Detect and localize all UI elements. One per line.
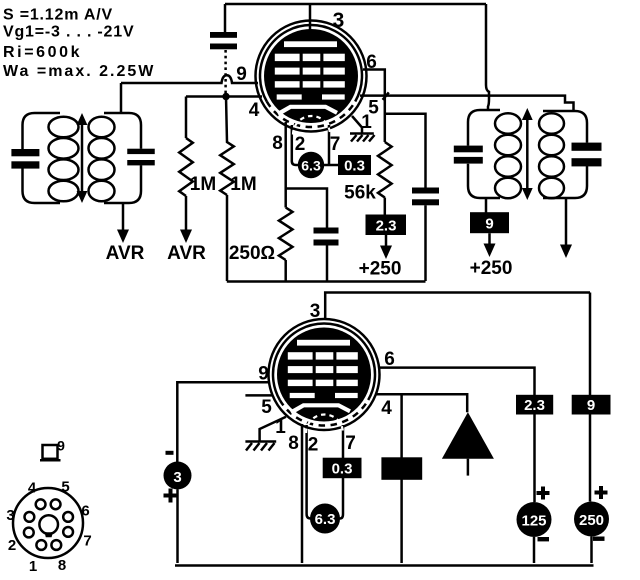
svg-text:4: 4 — [381, 398, 392, 419]
wire 6.3 to 0.3 box — [324, 164, 339, 167]
wire pin4 branch down — [400, 394, 403, 563]
battery 3V — [164, 462, 192, 490]
wire cap feed down — [224, 4, 227, 32]
svg-text:1: 1 — [29, 558, 37, 575]
wire down to T1 secondary — [120, 83, 123, 113]
wire cathode bypass branch — [286, 189, 327, 228]
battery 250V — [574, 502, 609, 537]
wire box2.3 to battery125 — [533, 415, 536, 503]
label minus battery 3V — [166, 451, 174, 455]
svg-text:Ri=600k: Ri=600k — [3, 44, 82, 61]
wire heater pin7 V1 — [328, 125, 331, 164]
arrow AVR left — [122, 203, 125, 232]
svg-text:6: 6 — [384, 349, 395, 370]
transformer T1 secondary loop — [104, 113, 141, 203]
svg-text:9: 9 — [57, 438, 65, 454]
svg-text:125: 125 — [521, 513, 546, 530]
svg-text:4: 4 — [249, 100, 260, 121]
capacitor C6 tank left — [454, 146, 483, 153]
svg-text:AVR: AVR — [167, 243, 206, 264]
wire pin5 stub V2 — [245, 394, 272, 397]
wire battery 3V to rail — [176, 490, 179, 564]
transformer T1 secondary turns — [89, 117, 115, 138]
svg-text:250Ω: 250Ω — [229, 243, 275, 264]
label plus battery 3V — [164, 489, 178, 503]
svg-text:6: 6 — [81, 503, 89, 520]
box 2.3 mA lower — [516, 395, 553, 415]
transformer T2 secondary turns — [539, 113, 564, 134]
arrow T2 secondary return — [565, 198, 568, 247]
socket pin holes — [36, 499, 46, 509]
wire screen branch — [385, 114, 426, 188]
transformer T2 primary turns — [495, 113, 521, 134]
wire pin4 V2 — [375, 394, 467, 412]
svg-text:9: 9 — [236, 64, 247, 85]
socket center spigot — [39, 515, 58, 534]
node junction dot — [222, 93, 229, 100]
transformer T2 primary loop — [468, 110, 500, 198]
wire pin1 lead V2 — [260, 417, 286, 441]
wire hv down right — [589, 293, 592, 396]
wire box9 to battery250 — [589, 415, 592, 502]
svg-text:5: 5 — [261, 397, 272, 418]
svg-text:9: 9 — [258, 364, 269, 385]
arrow +250 right — [488, 233, 491, 245]
svg-text:+250: +250 — [359, 259, 402, 280]
battery 125V — [517, 502, 552, 537]
wire anode rail V2 — [325, 293, 590, 319]
box 9 mA — [470, 212, 509, 233]
svg-text:5: 5 — [61, 479, 69, 496]
wire cathode pin8 V2 — [301, 424, 304, 563]
capacitor C5 cathode bypass — [314, 228, 339, 234]
ground lower — [245, 440, 276, 443]
svg-text:2: 2 — [295, 134, 306, 155]
svg-text:1M: 1M — [190, 174, 216, 195]
transformer T1 primary turns — [49, 117, 79, 138]
svg-text:4: 4 — [28, 480, 37, 497]
wire pin6 lead V1 — [363, 70, 385, 143]
box 2.3 mA — [366, 215, 407, 236]
socket outline — [13, 488, 83, 558]
capacitor C7 tank right — [572, 143, 602, 151]
transformer T1 primary loop — [23, 113, 61, 203]
battery 6.3V V1 — [298, 152, 324, 178]
resistor R3 56k — [378, 142, 392, 198]
wire grid pin9 with hop — [121, 75, 258, 83]
svg-text:9: 9 — [485, 216, 493, 233]
arrow +250 left — [385, 235, 388, 248]
svg-text:6.3: 6.3 — [315, 511, 336, 528]
wire anode to T2 with jog — [486, 4, 489, 111]
wire R3 to box — [384, 198, 387, 215]
svg-text:56k: 56k — [344, 183, 376, 204]
svg-text:3: 3 — [173, 469, 181, 486]
transformer T2 core arrows — [526, 118, 529, 155]
box 0.3 A — [338, 155, 371, 175]
svg-text:9: 9 — [587, 397, 595, 414]
wire dotted from C1 to node — [224, 50, 227, 94]
wire triangle stub — [467, 459, 470, 476]
wire C4 to rail — [424, 205, 427, 281]
resistor R1 1M — [179, 138, 193, 196]
wire anode top rail — [225, 3, 486, 6]
label minus 125 — [538, 537, 550, 541]
top cap symbol — [43, 445, 58, 459]
svg-text:8: 8 — [58, 557, 66, 574]
svg-text:7: 7 — [330, 134, 341, 155]
svg-text:2: 2 — [8, 537, 16, 554]
wire pin4 — [186, 95, 262, 98]
svg-text:Vg1=-3 . . . -21V: Vg1=-3 . . . -21V — [3, 24, 134, 41]
svg-text:1M: 1M — [230, 174, 256, 195]
capacitor C3 tank right — [127, 149, 155, 154]
svg-text:2.3: 2.3 — [524, 397, 545, 414]
svg-text:Wa =max. 2.25W: Wa =max. 2.25W — [3, 63, 155, 80]
svg-text:1: 1 — [275, 417, 286, 438]
wire heater pin2 V1 — [292, 125, 299, 165]
box 0.3 A lower — [323, 458, 362, 479]
resistor R4 250ohm — [279, 208, 293, 261]
wire R4 to rail — [284, 260, 287, 281]
pentode V1 — [256, 21, 367, 135]
box 9 mA lower — [572, 395, 611, 415]
wire battery125 to rail — [533, 537, 536, 563]
svg-text:8: 8 — [272, 133, 283, 154]
resistor R2 1M — [220, 97, 234, 196]
box blank meter — [381, 457, 422, 480]
svg-text:250: 250 — [579, 512, 604, 529]
wire down to R 1M left — [185, 97, 188, 139]
svg-text:2.3: 2.3 — [376, 218, 397, 235]
wire pin5 secondary link — [360, 96, 574, 112]
svg-text:S =1.12m A/V: S =1.12m A/V — [3, 7, 113, 24]
wire cathode pin8 V1 — [284, 122, 287, 208]
wire heater pin2 V2 — [307, 425, 312, 519]
svg-text:2: 2 — [308, 435, 319, 456]
svg-text:7: 7 — [345, 433, 356, 454]
svg-text:0.3: 0.3 — [332, 461, 353, 478]
wire grid pin9 V2 — [177, 382, 268, 462]
triangle rectifier — [442, 412, 494, 458]
svg-text:6: 6 — [366, 52, 377, 73]
transformer T1 core arrows — [81, 123, 84, 158]
wire battery250 to rail — [590, 537, 593, 564]
svg-text:6.3: 6.3 — [301, 158, 321, 174]
label plus 125 — [537, 487, 550, 500]
pentode V2 — [269, 319, 380, 433]
wire anode lead V1 — [309, 4, 312, 45]
capacitor C4 decoupling — [412, 188, 439, 194]
label minus 250 — [593, 537, 605, 541]
svg-text:7: 7 — [83, 533, 91, 550]
wire T2 primary to 9 box — [485, 198, 488, 213]
rail bottom top-circuit — [227, 280, 426, 283]
transformer T2 secondary loop — [543, 111, 587, 198]
wire heater pin7 V2 — [338, 425, 343, 519]
capacitor C1 grid coupling — [210, 32, 237, 38]
wire screen pin6 V2 — [378, 368, 535, 395]
arrow AVR right — [185, 196, 188, 232]
wire pin1 lead V1 — [352, 116, 362, 133]
svg-text:+250: +250 — [470, 258, 513, 279]
svg-text:AVR: AVR — [106, 243, 145, 264]
ground top — [350, 132, 374, 135]
battery 6.3V V2 — [310, 504, 340, 534]
rail bottom lower-circuit — [175, 564, 594, 567]
junction tick pin5/6 — [383, 92, 389, 99]
label plus 250 — [595, 486, 608, 499]
svg-text:1: 1 — [361, 112, 372, 133]
wire C5 to rail — [326, 246, 329, 282]
wire R2 to rail — [226, 195, 229, 281]
svg-text:3: 3 — [6, 507, 14, 524]
svg-text:0.3: 0.3 — [344, 158, 365, 175]
svg-text:8: 8 — [288, 433, 299, 454]
capacitor C2 tank left — [11, 149, 39, 156]
